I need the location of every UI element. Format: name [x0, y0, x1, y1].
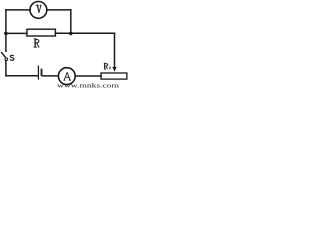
svg-text:www.mnks.com: www.mnks.com [57, 83, 119, 89]
